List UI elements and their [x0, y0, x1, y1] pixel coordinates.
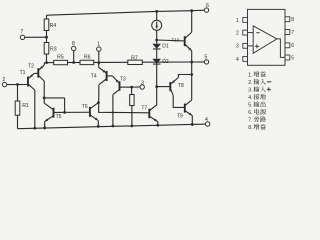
- pin 2 stub: [243, 30, 248, 35]
- wire pin2 to inverting input: [248, 32, 254, 34]
- svg-text:3: 3: [141, 80, 144, 86]
- transistor T5: [44, 103, 89, 121]
- wire T9 emitter to rail: [191, 116, 193, 125]
- resistor R6: [80, 55, 94, 65]
- pin 5 number label: [291, 55, 294, 61]
- svg-text:3: 3: [236, 44, 239, 50]
- wire D2 down to T7 collector: [156, 64, 158, 105]
- svg-text:6.: 6.: [248, 110, 252, 116]
- junction node A (R3/T2 emitter/R5): [45, 61, 48, 64]
- op-amp non-inverting input sign: [255, 44, 259, 48]
- legend line pin 1: [248, 71, 266, 78]
- diode D2: [152, 59, 169, 65]
- wire D1 to D2: [156, 49, 158, 59]
- wire T1 collector to ground rail: [34, 90, 36, 128]
- svg-text:1.: 1.: [248, 72, 252, 78]
- terminal pin 4 (ground): [205, 117, 210, 126]
- resistor R4: [44, 15, 56, 37]
- svg-text:2: 2: [2, 77, 5, 83]
- junction T5 emitter at rail: [43, 127, 46, 130]
- wire pin8 down to node B: [73, 51, 75, 63]
- svg-text:6: 6: [206, 3, 209, 9]
- pin 1 stub: [243, 17, 248, 22]
- svg-text:1: 1: [236, 18, 239, 24]
- svg-text:T2: T2: [28, 63, 34, 69]
- junction on top rail at T10 collector: [190, 9, 193, 12]
- resistor R5: [54, 55, 68, 65]
- resistor R3: [44, 37, 57, 62]
- wire T4 collector down to T6 collector and T7 base: [99, 85, 149, 113]
- junction mirror tie at base line: [63, 111, 66, 114]
- IC package DIP-8 body: [248, 9, 286, 65]
- wire pin3 to non-inverting input: [248, 45, 254, 47]
- svg-text:R6: R6: [84, 55, 91, 61]
- pin 6 stub: [285, 43, 290, 48]
- resistor R2: [130, 87, 134, 126]
- resistor R1: [15, 85, 29, 129]
- transistor T3: [112, 76, 140, 95]
- svg-text:5.: 5.: [248, 102, 252, 108]
- junction T1 collector at rail: [33, 127, 36, 130]
- wire T10 emitter to output node: [191, 51, 193, 62]
- svg-text:R4: R4: [50, 23, 57, 29]
- wire mirror tie drop to base line: [64, 98, 66, 112]
- junction R2 at rail: [131, 124, 134, 127]
- transistor T2: [28, 63, 44, 81]
- svg-text:T6: T6: [82, 104, 88, 110]
- wire T10 collector to top rail: [191, 11, 193, 32]
- pin 1 number label: [236, 18, 239, 24]
- terminal pin 1 (gain): [97, 41, 101, 51]
- junction T6 emitter at rail: [97, 125, 100, 128]
- wire T6 emitter to rail: [97, 121, 99, 127]
- wire pin1 node C down to T4 emitter: [98, 63, 100, 68]
- svg-text:D2: D2: [162, 59, 169, 65]
- svg-text:7: 7: [291, 30, 294, 36]
- pin 3 stub: [243, 43, 248, 48]
- junction T8 base tap: [155, 85, 158, 88]
- wire pin2 to T1 base: [7, 84, 28, 86]
- wire pin1 down through node C to T4 emitter: [98, 51, 100, 63]
- legend line pin 8: [248, 124, 266, 131]
- svg-text:T8: T8: [178, 83, 184, 89]
- svg-text:3.: 3.: [248, 87, 252, 93]
- junction T9 emitter at rail: [191, 123, 194, 126]
- wire ground rail (pin 4 rail): [18, 124, 206, 129]
- svg-text:R5: R5: [57, 55, 64, 61]
- pin 7 stub: [285, 30, 290, 35]
- svg-text:4.: 4.: [248, 95, 252, 101]
- legend line pin 7: [248, 116, 266, 123]
- wire node A row: [44, 62, 53, 64]
- pin 8 number label: [291, 17, 294, 23]
- wire R7 to output node: [142, 61, 191, 63]
- resistor R7: [128, 56, 143, 65]
- pin 6 number label: [291, 43, 294, 49]
- junction R2 tap on T3 base: [130, 86, 133, 89]
- wire T2 collector down to T5: [43, 81, 45, 103]
- wire op-amp output to pin 5: [277, 39, 285, 58]
- svg-text:D1: D1: [162, 44, 169, 50]
- svg-text:T9: T9: [177, 114, 183, 120]
- svg-text:T3: T3: [120, 76, 126, 82]
- junction mirror tie on T2 collector line: [43, 97, 46, 100]
- transistor T7: [141, 105, 157, 122]
- junction T6 collector on T4 line: [97, 101, 100, 104]
- svg-text:T10: T10: [172, 38, 180, 43]
- legend line pin 4: [248, 94, 266, 101]
- svg-text:7.: 7.: [248, 117, 252, 123]
- diode D1: [152, 40, 169, 50]
- op-amp inverting input sign: [256, 32, 259, 34]
- svg-text:T7: T7: [141, 105, 147, 111]
- wire R5 to R6: [68, 62, 81, 64]
- terminal pin 6 (Vs): [204, 3, 209, 12]
- svg-text:8: 8: [291, 17, 294, 23]
- wire T2 emitter to node A: [43, 63, 45, 65]
- junction output node (pin 5): [190, 61, 193, 64]
- junction T7 emitter at rail: [156, 124, 159, 127]
- wire T3 collector to rail: [112, 95, 114, 127]
- svg-text:T4: T4: [91, 73, 97, 79]
- terminal pin 8 (gain): [72, 41, 76, 51]
- svg-text:2.: 2.: [248, 80, 252, 86]
- terminal pin 3 (+input): [140, 80, 144, 89]
- transistor T6: [82, 103, 99, 121]
- terminal pin 7 (bypass): [20, 29, 24, 40]
- wire output node to pin 5: [192, 61, 205, 63]
- wire pin7 to R3/R4 node: [25, 36, 47, 38]
- wire T8 emitter to output line: [178, 75, 191, 78]
- junction T10 base tap: [155, 39, 158, 42]
- wire T7 emitter to rail: [157, 122, 159, 126]
- junction T3 collector at rail: [112, 125, 115, 128]
- pin 5 stub: [285, 55, 290, 60]
- wire T9 collector up to output node: [191, 62, 193, 100]
- svg-text:8: 8: [72, 41, 75, 47]
- svg-text:2: 2: [236, 31, 239, 37]
- current source I1: [152, 11, 162, 40]
- wire top supply rail (pin 6 rail): [47, 10, 205, 15]
- transistor T8: [157, 77, 184, 95]
- svg-text:7: 7: [20, 29, 23, 35]
- svg-text:5: 5: [204, 55, 207, 61]
- junction node C (pin 1): [97, 61, 100, 64]
- svg-text:T1: T1: [20, 70, 26, 76]
- legend line pin 2: [248, 79, 271, 86]
- svg-text:R1: R1: [22, 103, 29, 109]
- wire mirror tie horizontal: [44, 97, 64, 99]
- legend line pin 5: [248, 101, 265, 108]
- svg-text:4: 4: [236, 57, 239, 63]
- svg-text:1: 1: [97, 41, 100, 47]
- transistor T4: [91, 67, 113, 84]
- svg-text:4: 4: [205, 117, 208, 123]
- svg-text:6: 6: [291, 43, 294, 49]
- pin 4 stub: [243, 56, 248, 61]
- transistor T10: [157, 32, 192, 51]
- terminal pin 5 (output): [204, 55, 208, 65]
- pin 4 number label: [236, 57, 239, 63]
- terminal pin 2 (-input): [2, 77, 6, 87]
- junction node R3/R4/pin7: [45, 36, 48, 39]
- svg-text:8.: 8.: [248, 125, 252, 131]
- wire T8 collector to T9 base: [173, 95, 184, 107]
- legend line pin 3: [248, 86, 271, 93]
- junction pin2/R1: [16, 83, 19, 86]
- legend line pin 6: [248, 109, 266, 116]
- transistor T9: [177, 100, 192, 120]
- pin 3 number label: [236, 44, 239, 50]
- junction T3 collector crossing base wire: [112, 111, 114, 113]
- svg-text:R7: R7: [131, 56, 138, 62]
- svg-text:R3: R3: [50, 46, 57, 52]
- junction T8 emitter at output line: [190, 73, 193, 76]
- pin 7 number label: [291, 30, 294, 36]
- pin 2 number label: [236, 31, 239, 37]
- junction node B (pin 8): [72, 61, 75, 64]
- transistor T1: [20, 70, 38, 90]
- wire T5 emitter to rail: [44, 122, 46, 129]
- op-amp U1 triangle: [253, 26, 277, 53]
- svg-text:5: 5: [291, 55, 294, 61]
- wire R6 to R7: [94, 61, 128, 63]
- junction on top rail at current source: [155, 10, 158, 13]
- pin 8 stub: [285, 17, 290, 22]
- svg-text:T5: T5: [56, 114, 62, 120]
